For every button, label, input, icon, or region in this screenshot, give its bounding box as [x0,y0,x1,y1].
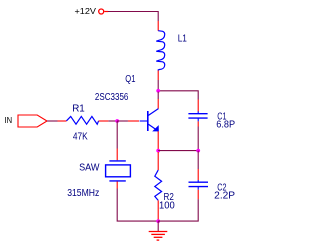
node emitter junction [156,149,160,153]
svg-text:L1: L1 [178,34,188,45]
svg-text:2SC3356: 2SC3356 [95,92,129,103]
ground [149,232,168,241]
capacitor C1 [188,111,207,121]
wire C2 top [197,151,199,169]
svg-text:R1: R1 [72,104,85,115]
wire C1 to emitter rail [197,127,199,151]
port IN [5,115,48,127]
pin C2 top [197,169,199,180]
svg-text:IN: IN [5,115,13,125]
SAW resonator [106,161,131,181]
wire emitter to rail [157,131,159,149]
pin C2 bottom [197,190,199,200]
transistor Q1 [140,109,159,132]
resistor R1 [67,116,99,124]
svg-text:6.8P: 6.8P [216,120,235,131]
wire +12V rail to L1 [108,12,158,22]
pin SAW bottom [116,182,118,189]
svg-text:100: 100 [159,200,175,211]
power terminal +12V [75,6,109,16]
wire C2 to ground rail [158,199,198,221]
svg-text:47K: 47K [73,132,88,143]
wire base node down to SAW [116,121,118,149]
svg-text:2.2P: 2.2P [214,191,235,202]
pin C1 bottom [197,121,199,126]
node C2 top junction [196,149,200,153]
pin R2 bottom [157,200,159,220]
wire collector pin [157,92,159,99]
pin C1 top [197,100,199,112]
pin R1 left [58,120,67,122]
wire R1 to base node [108,120,117,122]
wire base node to Q1 base [117,120,128,122]
pin R2 top [157,152,159,170]
svg-text:315MHz: 315MHz [67,188,99,199]
pin SAW top [116,149,118,161]
capacitor C2 [189,180,209,190]
wire collector node to C1 top [158,91,198,100]
node collector junction [156,89,160,93]
wire L1 to collector node [157,80,159,91]
inductor L1 [156,31,164,71]
resistor R2 [155,170,162,200]
wire SAW to ground rail [117,189,158,222]
svg-text:SAW: SAW [79,163,100,174]
node base junction [115,119,119,123]
wire ground stub [157,221,159,231]
node ground junction [156,219,160,223]
svg-text:Q1: Q1 [125,74,136,85]
pin L1 top [157,21,159,31]
pin R1 right [99,120,109,122]
wire emitter rail [158,150,198,152]
pin Q1 base [128,120,139,122]
pin L1 bottom [157,71,159,81]
wire port to R1 [47,120,58,122]
svg-text:+12V: +12V [75,6,97,16]
